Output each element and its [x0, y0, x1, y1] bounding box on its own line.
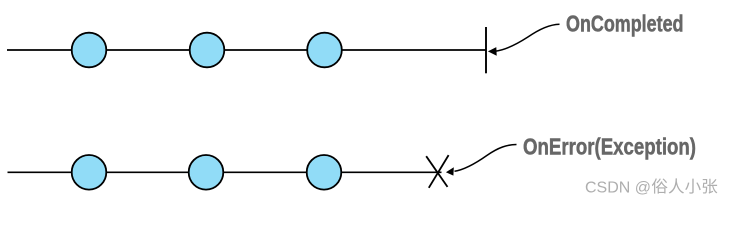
- node marble 2c: [307, 155, 342, 190]
- svg-text:OnCompleted: OnCompleted: [566, 11, 684, 37]
- wire timeline 2: [8, 171, 442, 173]
- arrowhead 2: [446, 167, 454, 175]
- wire annotation arrow 1: [496, 24, 560, 51]
- completion bar terminator: [485, 27, 487, 73]
- node marble 2b: [189, 155, 224, 190]
- node marble 1b: [190, 33, 225, 68]
- svg-text:CSDN @: CSDN @: [585, 179, 651, 196]
- arrowhead 1: [488, 47, 497, 56]
- wire timeline 1: [7, 49, 486, 51]
- node marble 1c: [307, 33, 342, 68]
- svg-text:OnError(Exception): OnError(Exception): [523, 133, 696, 159]
- watermark CSDN @俗人小张: [585, 178, 718, 197]
- node marble 1a: [72, 33, 107, 68]
- wire annotation arrow 2: [455, 145, 517, 172]
- error X terminator: [426, 155, 448, 188]
- node marble 2a: [72, 155, 107, 190]
